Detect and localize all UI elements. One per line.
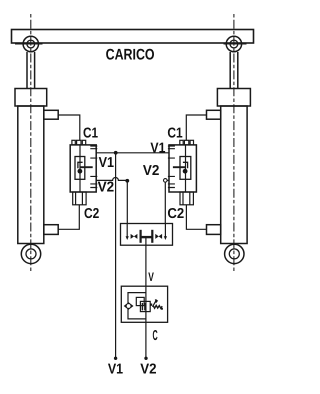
- wire left valve C2 to port: [58, 205, 79, 230]
- valve right body U2: [169, 145, 196, 192]
- relief valve square: [140, 301, 150, 311]
- relief pilot rect: [136, 297, 144, 305]
- flow divider left bar: [140, 230, 142, 243]
- centerline left cylinder: [30, 14, 32, 273]
- valve left top fitting: [72, 140, 86, 145]
- valve left poppet ball: [78, 169, 83, 174]
- check valve block body: [121, 286, 167, 322]
- relief valve spool bars: [142, 303, 145, 311]
- svg-text:V: V: [148, 270, 154, 284]
- svg-text:C1: C1: [167, 125, 182, 141]
- wire divider center tap down: [145, 237, 147, 286]
- wire check valve to V2 bottom: [145, 322, 147, 358]
- valve right bottom fitting: [180, 192, 193, 205]
- svg-text:C1: C1: [83, 125, 98, 141]
- valve left body U1: [70, 145, 96, 192]
- valve left pilot line: [80, 166, 93, 168]
- wire right V2 tick: [167, 179, 169, 181]
- svg-text:V2: V2: [143, 163, 160, 179]
- valve left internal line: [79, 145, 81, 192]
- relief valve out arrow: [150, 304, 152, 306]
- check valve diamond: [124, 302, 134, 310]
- svg-text:C2: C2: [167, 206, 184, 222]
- beam CARICO: [12, 30, 254, 44]
- valve left port ticks: [90, 146, 97, 187]
- wire left V2 with hop over V1 line: [96, 178, 127, 181]
- svg-text:V1: V1: [108, 362, 123, 378]
- svg-text:C2: C2: [84, 206, 99, 222]
- junction dot left V2: [125, 179, 129, 183]
- cylinder left head: [15, 89, 47, 107]
- cylinder right port C1: [207, 110, 221, 119]
- cylinder right rod: [230, 52, 238, 89]
- junction dot V1: [114, 151, 118, 155]
- valve right poppet ball: [183, 169, 188, 174]
- valve left seat: [78, 162, 83, 168]
- cylinder left clevis: [21, 244, 40, 263]
- wire left C1 port to valve: [58, 115, 80, 140]
- node V2 bottom dot: [144, 357, 147, 360]
- relief adjust arrow: [153, 299, 159, 307]
- valve right seat: [183, 162, 188, 168]
- cylinder left rod: [27, 52, 35, 89]
- flow divider left orifice: [131, 234, 138, 239]
- node V1 bottom dot: [114, 357, 117, 360]
- valve right port ticks: [168, 146, 175, 187]
- valve right internal line: [185, 145, 187, 192]
- cylinder left body: [18, 106, 44, 244]
- flow divider right orifice: [155, 234, 162, 239]
- wire V1 vertical to bottom: [115, 153, 117, 358]
- valve left bottom fitting: [73, 192, 86, 205]
- relief spring: [153, 305, 162, 308]
- cylinder right body: [221, 106, 247, 244]
- wire right V2 down to divider: [164, 182, 166, 223]
- wire right C1 port to valve: [186, 115, 206, 140]
- node right V2 circle: [164, 179, 168, 183]
- check valve center line: [145, 286, 147, 322]
- valve right top fitting: [180, 140, 194, 145]
- svg-text:C: C: [153, 328, 158, 344]
- svg-text:V1: V1: [150, 140, 165, 156]
- pin right (beam joint): [224, 36, 247, 51]
- cylinder right port C2: [207, 225, 221, 235]
- flow divider right inlet arrow: [164, 224, 167, 241]
- flow divider left inlet arrow: [126, 224, 129, 241]
- svg-text:V2: V2: [140, 362, 156, 378]
- centerline right cylinder: [233, 14, 235, 273]
- cylinder right clevis: [225, 244, 244, 263]
- valve right pilot line: [173, 166, 186, 168]
- pin left (beam joint): [15, 36, 43, 51]
- cylinder left port C1: [44, 110, 58, 119]
- cylinder left port C2: [44, 225, 58, 235]
- wire left V2 down to divider: [126, 181, 128, 224]
- flow divider center bar: [141, 236, 153, 238]
- cylinder right head: [217, 89, 250, 107]
- valve left cartridge: [75, 157, 85, 180]
- valve right cartridge: [180, 157, 191, 180]
- svg-text:CARICO: CARICO: [106, 47, 155, 64]
- flow divider body FD1: [121, 224, 173, 246]
- check valve bypass loop: [128, 293, 146, 319]
- wire V1 cross line: [96, 152, 169, 154]
- relief spring dot: [161, 308, 163, 310]
- svg-text:V2: V2: [98, 179, 115, 195]
- svg-text:V1: V1: [99, 155, 114, 171]
- flow divider right bar: [151, 230, 153, 243]
- wire right valve C2 to port: [186, 205, 206, 230]
